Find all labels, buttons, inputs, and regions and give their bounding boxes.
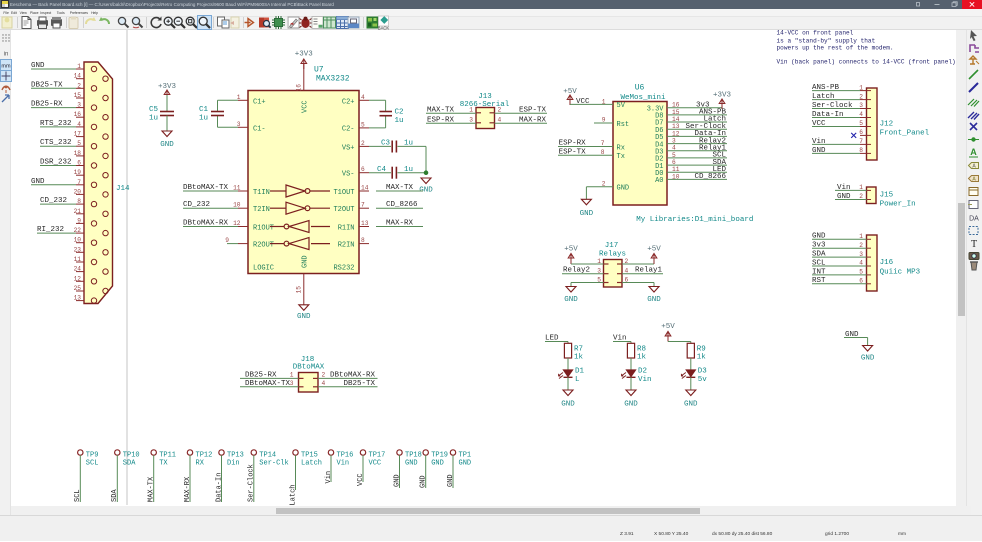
- svg-text:Vin: Vin: [812, 138, 826, 146]
- svg-text:CD_232: CD_232: [183, 201, 210, 209]
- svg-text:R1IN: R1IN: [338, 225, 355, 233]
- svg-text:TX: TX: [159, 459, 168, 467]
- svg-text:Data-In: Data-In: [215, 473, 223, 502]
- svg-text:D1: D1: [575, 367, 585, 375]
- svg-text:GND: GND: [617, 185, 630, 193]
- svg-text:9: 9: [602, 117, 606, 124]
- svg-text:2: 2: [77, 82, 81, 89]
- svg-text:RST: RST: [812, 277, 826, 285]
- svg-text:Quiic MP3: Quiic MP3: [880, 269, 921, 277]
- svg-text:1: 1: [859, 233, 863, 240]
- svg-text:CD_232: CD_232: [40, 197, 67, 205]
- svg-text:16: 16: [74, 111, 82, 118]
- svg-text:LED: LED: [545, 335, 559, 343]
- svg-text:11: 11: [233, 185, 241, 192]
- svg-text:GND: GND: [647, 296, 661, 304]
- svg-text:U7: U7: [314, 66, 324, 75]
- svg-text:4: 4: [859, 260, 863, 267]
- svg-text:12: 12: [672, 130, 680, 137]
- svg-text:My Libraries:D1_mini_board: My Libraries:D1_mini_board: [636, 216, 753, 224]
- svg-text:1u: 1u: [395, 117, 404, 125]
- svg-text:DB25-TX: DB25-TX: [343, 380, 375, 388]
- svg-text:DBtoMAX-TX: DBtoMAX-TX: [245, 380, 291, 388]
- svg-text:8: 8: [601, 149, 605, 156]
- svg-text:mm: mm: [1, 63, 11, 69]
- svg-text:R7: R7: [574, 346, 583, 354]
- svg-text:1: 1: [602, 98, 606, 105]
- svg-text:11: 11: [672, 166, 680, 173]
- svg-text:4: 4: [77, 121, 81, 128]
- svg-text:DBtoMAX: DBtoMAX: [293, 364, 325, 372]
- svg-text:GND: GND: [31, 62, 45, 70]
- svg-text:15: 15: [74, 92, 82, 99]
- svg-text:R1OUT: R1OUT: [253, 225, 274, 233]
- svg-text:6: 6: [625, 277, 629, 284]
- svg-text:5: 5: [361, 121, 365, 128]
- svg-text:23: 23: [74, 246, 82, 253]
- svg-text:D3: D3: [698, 367, 708, 375]
- svg-text:10: 10: [672, 173, 680, 180]
- svg-text:SCL: SCL: [74, 489, 82, 502]
- svg-text:TP13: TP13: [227, 451, 244, 459]
- svg-text:24: 24: [74, 266, 82, 273]
- svg-text:GND: GND: [297, 313, 311, 321]
- svg-text:4: 4: [625, 268, 629, 275]
- svg-text:14-VCC on front panel: 14-VCC on front panel: [777, 30, 854, 37]
- svg-text:20: 20: [74, 188, 82, 195]
- svg-text:J15: J15: [880, 192, 894, 200]
- svg-text:Latch: Latch: [289, 484, 297, 505]
- svg-text:9: 9: [77, 217, 81, 224]
- svg-text:3: 3: [597, 268, 601, 275]
- svg-text:Relays: Relays: [599, 251, 626, 259]
- svg-text:in: in: [4, 52, 9, 58]
- svg-text:MAX-TX: MAX-TX: [427, 106, 455, 114]
- svg-text:GND: GND: [160, 141, 174, 149]
- svg-text:C2-: C2-: [342, 125, 355, 133]
- svg-text:Latch: Latch: [301, 459, 322, 467]
- svg-text:BACK: BACK: [378, 25, 390, 30]
- svg-text:Vin: Vin: [337, 459, 350, 467]
- svg-text:5: 5: [77, 140, 81, 147]
- svg-text:A: A: [970, 147, 977, 157]
- svg-text:2: 2: [602, 180, 606, 187]
- svg-text:6: 6: [859, 129, 863, 136]
- svg-text:13: 13: [74, 295, 82, 302]
- svg-text:T2OUT: T2OUT: [333, 206, 354, 214]
- svg-text:2: 2: [859, 193, 863, 200]
- svg-text:TP14: TP14: [259, 451, 276, 459]
- svg-text:7: 7: [601, 140, 605, 147]
- svg-text:SCL: SCL: [812, 259, 826, 267]
- svg-text:VCC: VCC: [576, 98, 590, 106]
- svg-text:MAX-RX: MAX-RX: [184, 476, 192, 502]
- svg-text:Vin: Vin: [613, 335, 627, 343]
- svg-text:CTS_232: CTS_232: [40, 139, 72, 147]
- svg-text:7: 7: [361, 202, 365, 209]
- svg-text:ESP-TX: ESP-TX: [519, 106, 547, 114]
- svg-text:5V: 5V: [617, 102, 626, 110]
- svg-text:TP16: TP16: [337, 451, 354, 459]
- svg-text:C2: C2: [395, 109, 404, 117]
- svg-text:15: 15: [296, 286, 303, 294]
- svg-text:DBtoMAX-RX: DBtoMAX-RX: [330, 372, 376, 380]
- svg-text:Latch: Latch: [812, 93, 835, 101]
- svg-text:ESP-RX: ESP-RX: [427, 116, 455, 124]
- svg-text:DBtoMAX-TX: DBtoMAX-TX: [183, 184, 229, 192]
- svg-text:TP10: TP10: [123, 451, 140, 459]
- svg-text:1u: 1u: [404, 166, 413, 174]
- svg-text:MAX-TX: MAX-TX: [148, 476, 156, 502]
- svg-text:C2+: C2+: [342, 98, 355, 106]
- svg-text:T2IN: T2IN: [253, 206, 270, 214]
- svg-text:Power_In: Power_In: [880, 201, 916, 209]
- svg-text:Tx: Tx: [617, 153, 625, 161]
- svg-text:GND: GND: [684, 401, 698, 409]
- svg-text:1: 1: [469, 106, 473, 113]
- svg-text:16: 16: [672, 102, 680, 109]
- svg-text:TP15: TP15: [301, 451, 318, 459]
- svg-text:J17: J17: [605, 242, 619, 250]
- svg-text:GND: GND: [564, 296, 578, 304]
- svg-text:Front_Panel: Front_Panel: [880, 130, 930, 138]
- svg-text:TP18: TP18: [405, 451, 422, 459]
- svg-text:3: 3: [672, 138, 676, 145]
- svg-text:A0: A0: [655, 177, 663, 185]
- svg-text:+5V: +5V: [563, 88, 577, 96]
- svg-text:SDA: SDA: [111, 489, 119, 502]
- svg-text:ANS-PB: ANS-PB: [812, 84, 840, 92]
- svg-text:2: 2: [625, 258, 629, 265]
- svg-text:GND: GND: [31, 178, 45, 186]
- svg-text:4: 4: [672, 145, 676, 152]
- svg-text:6: 6: [361, 166, 365, 173]
- svg-text:GND: GND: [561, 401, 575, 409]
- svg-text:C1: C1: [199, 106, 209, 114]
- svg-text:VCC: VCC: [369, 459, 382, 467]
- svg-text:Ser-Clk: Ser-Clk: [259, 459, 288, 467]
- svg-text:Vin: Vin: [638, 376, 652, 384]
- svg-text:powers up the rest of the mode: powers up the rest of the modem.: [777, 45, 894, 52]
- svg-text:4: 4: [361, 94, 365, 101]
- svg-text:GND: GND: [405, 459, 418, 467]
- svg-text:1: 1: [77, 63, 81, 70]
- svg-text:17: 17: [74, 131, 82, 138]
- svg-text:GND: GND: [431, 459, 444, 467]
- svg-text:GND: GND: [393, 474, 401, 487]
- svg-text:ESP-TX: ESP-TX: [559, 149, 587, 157]
- svg-text:10: 10: [74, 237, 82, 244]
- svg-text:C5: C5: [149, 106, 159, 114]
- svg-text:+3V3: +3V3: [158, 83, 177, 91]
- svg-text:1: 1: [859, 184, 863, 191]
- svg-text:13: 13: [361, 220, 369, 227]
- svg-text:1k: 1k: [574, 354, 584, 362]
- svg-text:J13: J13: [478, 93, 492, 101]
- svg-text:C1+: C1+: [253, 98, 266, 106]
- svg-text:5v: 5v: [698, 376, 708, 384]
- svg-text:13: 13: [672, 123, 680, 130]
- svg-text:J14: J14: [116, 185, 130, 193]
- svg-text:12: 12: [233, 220, 241, 227]
- svg-text:INT: INT: [812, 268, 826, 276]
- svg-text:GND: GND: [447, 474, 455, 487]
- svg-text:Data-In: Data-In: [812, 111, 844, 119]
- svg-text:+3V3: +3V3: [713, 92, 732, 100]
- svg-text:GND: GND: [861, 355, 875, 363]
- svg-text:MAX-RX: MAX-RX: [519, 116, 547, 124]
- svg-text:11: 11: [74, 256, 82, 263]
- svg-text:19: 19: [74, 169, 82, 176]
- svg-text:12: 12: [74, 275, 82, 282]
- svg-text:1k: 1k: [637, 354, 647, 362]
- svg-text:DA: DA: [969, 216, 979, 223]
- svg-text:R9: R9: [697, 346, 706, 354]
- svg-text:GND: GND: [812, 147, 826, 155]
- svg-text:C4: C4: [377, 166, 387, 174]
- svg-text:+5V: +5V: [564, 246, 578, 254]
- svg-text:6: 6: [859, 278, 863, 285]
- svg-text:25: 25: [74, 285, 82, 292]
- svg-text:TP9: TP9: [86, 451, 99, 459]
- svg-text:R8: R8: [637, 346, 646, 354]
- svg-text:2: 2: [322, 372, 326, 379]
- svg-text:R2OUT: R2OUT: [253, 242, 274, 250]
- svg-text:L: L: [575, 376, 580, 384]
- svg-text:1: 1: [597, 258, 601, 265]
- svg-text:VS+: VS+: [342, 144, 355, 152]
- svg-text:1u: 1u: [199, 115, 208, 123]
- svg-text:DB25-RX: DB25-RX: [245, 372, 277, 380]
- svg-text:TP11: TP11: [159, 451, 176, 459]
- svg-text:GND: GND: [812, 233, 826, 241]
- svg-text:Rx: Rx: [617, 144, 625, 152]
- svg-text:SCL: SCL: [86, 459, 99, 467]
- svg-text:1u: 1u: [149, 115, 158, 123]
- svg-text:21: 21: [74, 208, 82, 215]
- svg-text:TP17: TP17: [369, 451, 386, 459]
- svg-text:Relay2: Relay2: [563, 267, 590, 275]
- svg-text:MAX3232: MAX3232: [316, 75, 350, 84]
- svg-text:J16: J16: [880, 259, 894, 267]
- svg-text:1: 1: [237, 94, 241, 101]
- svg-text:2: 2: [859, 242, 863, 249]
- svg-text:U6: U6: [635, 84, 645, 93]
- svg-text:RX: RX: [196, 459, 205, 467]
- svg-text:7: 7: [77, 179, 81, 186]
- svg-text:DBtoMAX-RX: DBtoMAX-RX: [183, 220, 229, 228]
- svg-text:Vin: Vin: [325, 471, 333, 484]
- svg-text:6: 6: [77, 160, 81, 167]
- svg-text:LOGIC: LOGIC: [253, 265, 274, 273]
- svg-text:5: 5: [859, 269, 863, 276]
- svg-text:is a "stand-by" supply that: is a "stand-by" supply that: [777, 37, 876, 44]
- svg-text:3: 3: [859, 251, 863, 258]
- svg-text:C3: C3: [381, 140, 391, 148]
- svg-text:Vin: Vin: [837, 184, 851, 192]
- svg-text:+3V3: +3V3: [295, 50, 314, 58]
- svg-text:CD_8266: CD_8266: [694, 173, 726, 181]
- svg-text:Relay1: Relay1: [635, 267, 663, 275]
- svg-text:8: 8: [361, 237, 365, 244]
- svg-text:1k: 1k: [697, 354, 707, 362]
- svg-text:DB25-RX: DB25-RX: [31, 101, 63, 109]
- svg-text:GND: GND: [837, 193, 851, 201]
- svg-text:GND: GND: [580, 210, 594, 218]
- svg-text:Rst: Rst: [617, 121, 630, 129]
- svg-text:SDA: SDA: [812, 251, 826, 259]
- svg-text:VCC: VCC: [302, 100, 310, 113]
- svg-text:WeMos_mini: WeMos_mini: [620, 94, 666, 102]
- svg-text:Vin (back panel) connects to 1: Vin (back panel) connects to 14-VCC (fro…: [777, 58, 956, 65]
- svg-text:RS232: RS232: [333, 265, 354, 273]
- svg-text:Ser-Clock: Ser-Clock: [248, 464, 256, 502]
- svg-text:3: 3: [237, 121, 241, 128]
- svg-text:VCC: VCC: [812, 120, 826, 128]
- svg-text:GND: GND: [420, 475, 428, 488]
- svg-text:TP1: TP1: [459, 451, 472, 459]
- svg-text:5: 5: [672, 152, 676, 159]
- svg-text:14: 14: [74, 73, 82, 80]
- svg-text:VS-: VS-: [342, 171, 355, 179]
- svg-text:D2: D2: [638, 367, 647, 375]
- svg-text:1: 1: [290, 372, 294, 379]
- svg-text:GND: GND: [624, 401, 638, 409]
- svg-text:14: 14: [672, 116, 680, 123]
- svg-text:6: 6: [672, 159, 676, 166]
- svg-text:ESP-RX: ESP-RX: [559, 140, 587, 148]
- svg-text:DSR_232: DSR_232: [40, 159, 72, 167]
- svg-text:1u: 1u: [404, 140, 413, 148]
- svg-text:RTS_232: RTS_232: [40, 120, 72, 128]
- svg-text:14: 14: [361, 185, 369, 192]
- svg-text:GND: GND: [302, 255, 310, 268]
- svg-text:DB25-TX: DB25-TX: [31, 81, 63, 89]
- svg-text:3: 3: [77, 102, 81, 109]
- svg-text:VCC: VCC: [357, 473, 365, 486]
- svg-text:+5V: +5V: [661, 323, 675, 331]
- svg-text:2: 2: [498, 106, 502, 113]
- svg-text:2: 2: [361, 140, 365, 147]
- svg-text:J12: J12: [880, 121, 894, 129]
- svg-text:4: 4: [322, 380, 326, 387]
- svg-text:C1-: C1-: [253, 125, 266, 133]
- svg-text:15: 15: [672, 109, 680, 116]
- svg-text:R2IN: R2IN: [338, 242, 355, 250]
- svg-text:RI_232: RI_232: [37, 226, 64, 234]
- svg-text:4: 4: [498, 116, 502, 123]
- svg-text:TP19: TP19: [431, 451, 448, 459]
- svg-text:16: 16: [296, 84, 303, 92]
- svg-text:3: 3: [469, 116, 473, 123]
- svg-text:8: 8: [77, 198, 81, 205]
- svg-text:3: 3: [290, 380, 294, 387]
- svg-text:TP12: TP12: [196, 451, 213, 459]
- svg-text:T1IN: T1IN: [253, 189, 270, 197]
- svg-text:5: 5: [597, 277, 601, 284]
- svg-text:SDA: SDA: [123, 459, 136, 467]
- svg-text:Ser-Clock: Ser-Clock: [812, 102, 853, 110]
- svg-text:10: 10: [233, 202, 241, 209]
- svg-text:Din: Din: [227, 459, 240, 467]
- svg-text:+5V: +5V: [647, 246, 661, 254]
- svg-text:3v3: 3v3: [812, 242, 826, 250]
- svg-text:GND: GND: [459, 459, 472, 467]
- svg-text:9: 9: [225, 237, 229, 244]
- svg-text:T1OUT: T1OUT: [333, 189, 354, 197]
- svg-text:18: 18: [74, 150, 82, 157]
